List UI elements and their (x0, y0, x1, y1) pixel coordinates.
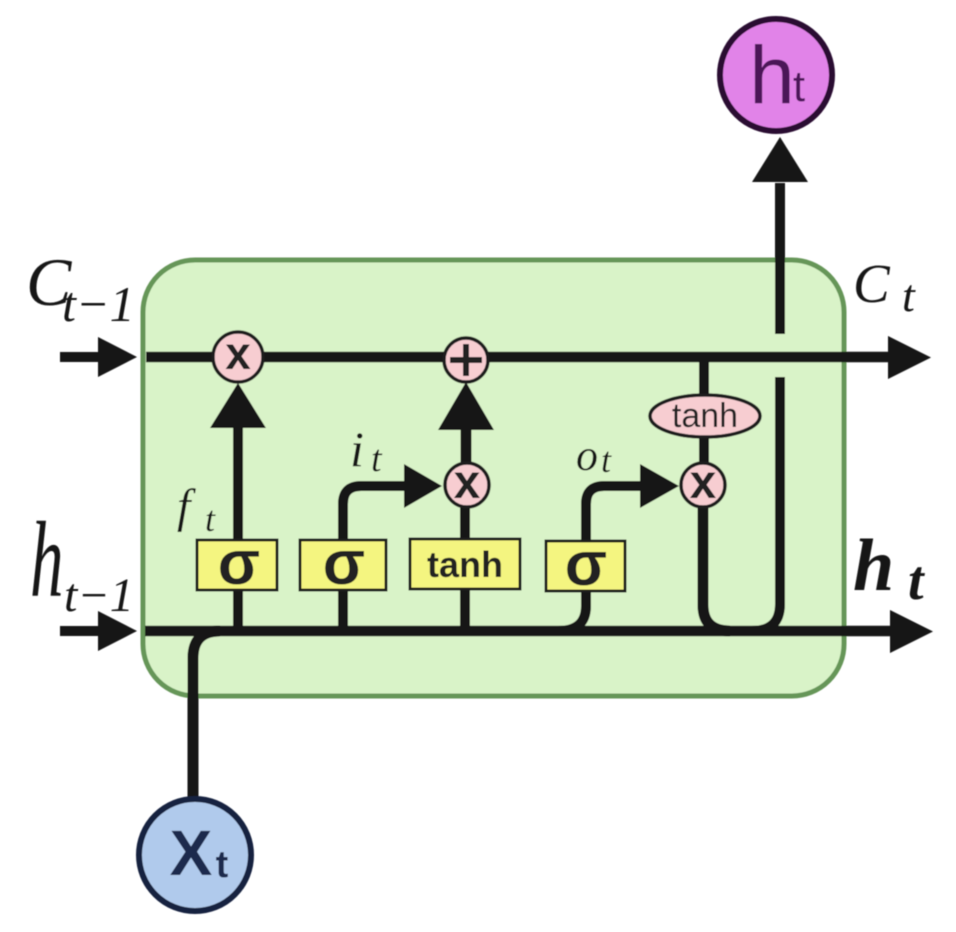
svg-text:h: h (853, 525, 894, 607)
forget gate arrowhead into mul (210, 383, 266, 428)
hidden state input arrow (left) (60, 626, 100, 636)
svg-text:t: t (601, 440, 612, 480)
output gate sigma box (546, 541, 625, 591)
svg-text:σ: σ (218, 529, 260, 598)
add node (444, 338, 488, 382)
cell state line C (horizontal) (146, 352, 888, 363)
svg-text:t: t (371, 438, 383, 480)
input gate riser wire (343, 486, 406, 631)
candidate tanh riser wire (460, 505, 470, 631)
input gate sigma box (300, 540, 386, 590)
tanh ellipse node (650, 395, 760, 437)
svg-text:X: X (170, 817, 213, 889)
cell state output arrowhead (right) (888, 336, 931, 379)
output multiply node (681, 463, 725, 507)
svg-text:tanh: tanh (427, 544, 503, 585)
output gate arrowhead into mul (640, 464, 679, 508)
x_t input circle (139, 799, 251, 911)
svg-text:C: C (853, 253, 891, 314)
svg-text:t−1: t−1 (64, 569, 134, 622)
forget gate sigma box (197, 540, 277, 590)
cell state input arrow (left) (60, 352, 100, 362)
svg-text:tanh: tanh (672, 397, 738, 435)
svg-text:t: t (908, 550, 925, 612)
x_t input branch wire (193, 631, 220, 798)
forget multiply node (213, 332, 263, 382)
hidden state line h (horizontal) (145, 626, 890, 637)
candidate tanh box (410, 539, 520, 589)
svg-text:x: x (690, 456, 717, 509)
input multiply node (445, 463, 489, 507)
svg-text:t: t (205, 499, 216, 539)
candidate to plus wire (461, 428, 472, 462)
forget gate riser wire (233, 424, 243, 631)
svg-text:t: t (902, 270, 916, 321)
h_t arrowhead into circle (752, 137, 808, 182)
input gate arrowhead into mul (404, 464, 442, 508)
svg-text:i: i (350, 421, 364, 477)
LSTM cell body (143, 260, 844, 696)
h_t riser wire lower (752, 377, 780, 631)
hidden state output arrowhead (right) (890, 610, 933, 653)
output gate riser wire (558, 486, 642, 631)
tanh to output mul wire (699, 436, 709, 464)
svg-text:x: x (454, 456, 481, 509)
svg-text:o: o (576, 431, 598, 480)
svg-text:h: h (30, 501, 63, 620)
h_t riser wire upper (775, 183, 785, 334)
h_t output circle (720, 19, 832, 131)
svg-text:h: h (749, 30, 795, 121)
svg-text:x: x (225, 327, 251, 379)
svg-text:t−1: t−1 (62, 276, 135, 332)
svg-text:σ: σ (323, 529, 365, 598)
svg-text:t: t (793, 62, 805, 111)
cell to tanh drop wire (699, 362, 709, 396)
output mul down wire (703, 506, 730, 631)
candidate arrowhead into add (438, 382, 494, 430)
svg-text:t: t (216, 844, 229, 886)
svg-text:σ: σ (565, 530, 607, 599)
